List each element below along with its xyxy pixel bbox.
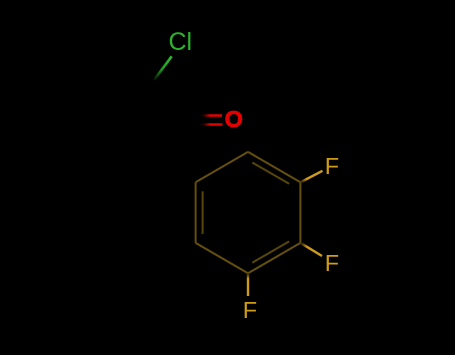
carbonyl double bond C=O lower line bbox=[201, 123, 223, 125]
svg-text:O: O bbox=[225, 106, 243, 132]
benzene ring edge C3-C4 bbox=[299, 182, 301, 243]
benzene ring edge C6-C1 bbox=[195, 182, 197, 243]
aromatic inner line C2=C3 bbox=[252, 163, 289, 184]
benzene ring edge C4-C5 bbox=[248, 243, 300, 273]
svg-text:F: F bbox=[243, 297, 257, 323]
aromatic inner line C6=C1 bbox=[202, 191, 204, 234]
benzene ring edge C5-C6 bbox=[196, 243, 248, 273]
svg-text:F: F bbox=[325, 153, 339, 179]
svg-text:F: F bbox=[325, 250, 339, 276]
benzene ring edge C2-C3 bbox=[248, 152, 300, 182]
bond C3-F1 (gold half) bbox=[301, 171, 323, 182]
carbonyl double bond C=O upper line bbox=[201, 114, 222, 116]
svg-text:Cl: Cl bbox=[169, 28, 193, 56]
aromatic inner line C4=C5 bbox=[252, 241, 289, 262]
bond C4-F2 (gold half) bbox=[301, 243, 322, 256]
bond C5-F3 (gold half) bbox=[247, 274, 249, 297]
bond C2H2-Cl (green half) bbox=[154, 56, 172, 80]
benzene ring edge C1-C2 bbox=[196, 152, 248, 182]
